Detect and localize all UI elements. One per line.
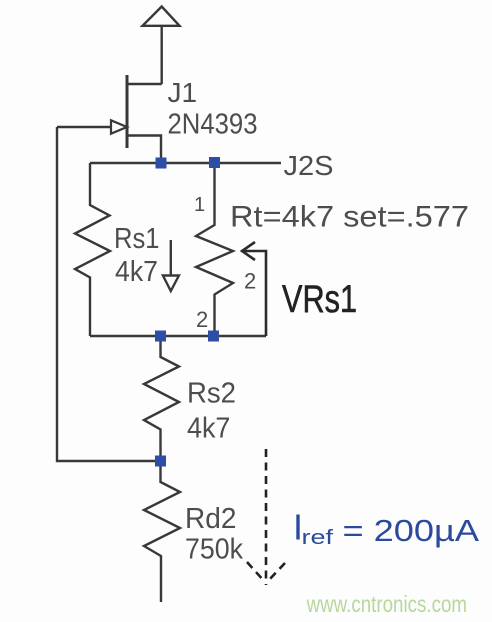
svg-text:750k: 750k	[185, 533, 243, 565]
resistor Rs1	[75, 163, 110, 336]
svg-text:J2S: J2S	[284, 150, 334, 181]
current direction arrow	[163, 240, 179, 291]
svg-text:2: 2	[244, 269, 256, 294]
node junction bottom pot	[208, 331, 219, 342]
svg-text:4k7: 4k7	[115, 256, 158, 288]
node junction Rs2-Rd2	[155, 456, 166, 467]
svg-text:Rs2: Rs2	[187, 378, 236, 410]
svg-text:Rd2: Rd2	[185, 503, 236, 535]
wire source	[127, 136, 161, 164]
wire bottom loop	[90, 335, 266, 337]
svg-text:ref: ref	[302, 527, 334, 549]
transistor Q J1 channel	[126, 75, 129, 148]
wire gate	[57, 126, 111, 128]
potentiometer Rt	[196, 163, 233, 336]
svg-text:1: 1	[194, 194, 205, 216]
svg-text:www.cntronics.com: www.cntronics.com	[306, 591, 467, 617]
svg-text:Rt=4k7 set=.577: Rt=4k7 set=.577	[230, 201, 469, 234]
node junction top source	[156, 158, 167, 169]
svg-text:= 200µA: = 200µA	[343, 513, 480, 548]
resistor Rs2	[144, 336, 179, 461]
wire top net J2S	[90, 162, 281, 164]
transistor J1 gate arrow	[111, 120, 127, 133]
node junction bottom left	[155, 331, 166, 342]
dashed reference current arrow	[247, 449, 285, 585]
wire drain	[127, 83, 162, 85]
supply arrow symbol	[143, 7, 180, 85]
wire left rail	[57, 127, 161, 461]
svg-text:Rs1: Rs1	[114, 223, 160, 255]
label Iref = 200uA	[293, 507, 479, 550]
potentiometer wiper VRs1	[242, 242, 266, 336]
node junction top pot	[209, 157, 220, 168]
svg-text:2: 2	[196, 307, 208, 332]
svg-text:J1: J1	[168, 77, 198, 108]
svg-text:VRs1: VRs1	[282, 278, 357, 321]
svg-text:2N4393: 2N4393	[168, 109, 258, 141]
svg-text:4k7: 4k7	[187, 413, 230, 445]
resistor Rd2	[144, 461, 180, 602]
